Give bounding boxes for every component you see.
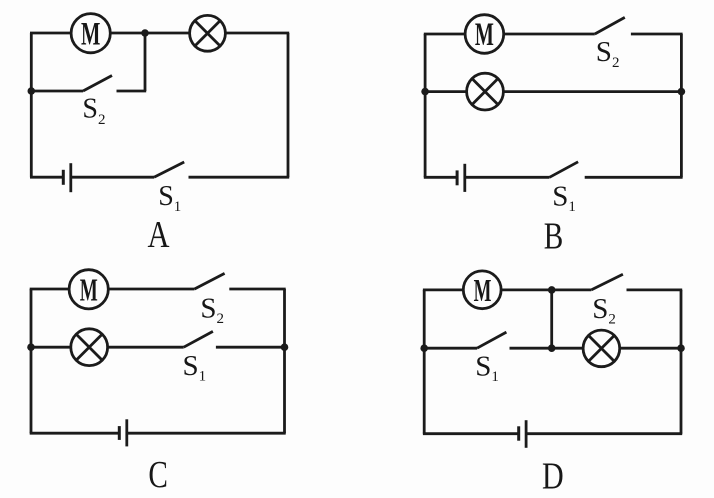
- svg-text:S1: S1: [183, 350, 207, 385]
- svg-text:M: M: [80, 272, 98, 308]
- svg-text:M: M: [474, 272, 492, 308]
- svg-text:S2: S2: [82, 94, 105, 129]
- svg-text:S1: S1: [475, 350, 499, 385]
- svg-text:S2: S2: [592, 293, 616, 328]
- svg-text:C: C: [148, 454, 168, 496]
- svg-text:S1: S1: [552, 181, 576, 216]
- svg-text:S2: S2: [200, 293, 224, 328]
- svg-text:A: A: [148, 214, 170, 256]
- svg-text:B: B: [544, 216, 564, 258]
- svg-text:D: D: [542, 456, 564, 498]
- svg-text:M: M: [81, 16, 100, 52]
- svg-text:S2: S2: [596, 36, 620, 71]
- svg-text:S1: S1: [158, 181, 181, 215]
- svg-text:M: M: [475, 17, 494, 53]
